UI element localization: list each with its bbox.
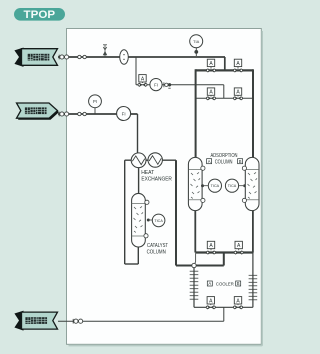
svg-text:COLUMN: COLUMN [147,249,166,255]
svg-text:PI: PI [93,99,97,104]
wire: HX1 to catalyst column top [138,168,140,195]
valve A8 (cooler outlet right) [233,297,242,310]
wire: catalyst bottom U riser [137,246,139,264]
nozzles on catalyst column [144,200,149,238]
wire: HX outlet run to riser [196,265,224,267]
svg-text:TICA: TICA [228,184,237,188]
nozzles on column A [201,166,205,202]
orifice plate (purge line) [164,82,171,88]
valve A3 (equalization left) [206,88,215,101]
svg-text:TIA: TIA [193,39,199,44]
nozzles on column B [242,166,246,202]
banner text 2 (CJK pseudoglyphs) [25,107,47,114]
wire: riser from HX outlet run to bottom header [223,252,225,266]
wire: HX left downcomer [124,160,126,264]
wire: recovered gas drop [223,307,225,321]
label [A] COOLER [B] [207,281,240,288]
panel shadow [69,31,263,346]
valve A2 (top header right) [233,59,242,72]
catalyst column vessel [132,193,146,247]
instrument TICA (column A) [201,179,221,192]
wire: equalization line (row 2) [196,97,253,99]
rotameter (ellipse) on product line [120,50,129,65]
wire: cooler tube B [252,253,254,308]
wire: purified gas product line (top) [58,56,225,58]
wire: header-to-cooler-A jog connector [194,254,196,265]
instrument TIA [190,35,203,56]
svg-text:ADSORPTION: ADSORPTION [211,153,238,159]
heat exchanger circle 2 [148,153,162,167]
wire: top header between columns [196,69,253,71]
wire: heat exchanger shell line [125,159,176,161]
wire: purge line drop to equalization line [223,85,225,99]
banner: purified gas (top left) [15,48,57,66]
adsorption column B (right vessel) [245,157,259,210]
wire: feed line drop to heat exchanger [137,114,139,154]
wire: cooler tube A [193,268,195,308]
wire: HX outlet run to cooler A [176,265,192,267]
cooler tube B fins [249,275,258,300]
instrument FI (feed, on line) [117,107,131,121]
white diagram panel [67,29,262,346]
instrument PI (feed) [89,95,102,114]
svg-text:B: B [237,281,240,286]
wire: left column bottom pipe [194,210,196,253]
relief valve on product line [103,45,107,57]
label CATALYST COLUMN [147,243,169,255]
svg-text:FI: FI [122,111,126,116]
wire: catalyst bottom U horizontal [125,263,139,265]
cooler tube A fins [190,271,199,299]
svg-text:HEAT: HEAT [141,170,155,176]
valve A1 (top header left) [206,59,215,72]
svg-text:FI: FI [154,82,158,87]
adsorption column A (left vessel) [188,157,202,210]
wire: bottom header [195,251,253,253]
label ADSORPTION [A] COLUMN [B] [207,153,243,165]
banner: recovered gas (bottom left) [15,311,57,330]
TPOP title pill [14,8,65,21]
svg-text:A: A [208,281,211,286]
banner text 3 (CJK pseudoglyphs) [25,317,47,324]
wire: right column riser [252,69,254,158]
heat exchanger circle 1 [131,153,146,168]
instrument FI (purge, on line) [150,79,162,91]
banner: feed gas (middle left) [17,103,60,120]
svg-text:COOLER: COOLER [216,282,234,288]
svg-text:EXCHANGER: EXCHANGER [141,177,172,183]
svg-text:TPOP: TPOP [24,9,56,21]
wire: product line drop into top header [224,57,226,70]
valve A4 (equalization right) [233,88,242,101]
coupling flanges on feed line [59,112,86,117]
svg-text:TICA: TICA [211,184,220,188]
svg-text:B: B [239,159,242,164]
instrument TICA (catalyst column) [147,214,165,227]
coupling flanges on recovered gas line [73,319,83,324]
valve A5 (bottom header left) [206,241,215,254]
wire: feed gas line [58,113,138,115]
wire: cooler outlet line [194,306,253,308]
wire: HX outlet downcomer (thick) [175,160,177,265]
wire: recovered gas line to banner [58,320,224,322]
svg-text:COLUMN: COLUMN [215,159,233,165]
valve A7 (cooler outlet left) [206,297,215,310]
cooler tube A inlet nozzle [192,263,196,267]
svg-text:CATALYST: CATALYST [147,243,169,249]
svg-text:A: A [208,159,211,164]
valve A (purge line) [138,75,147,87]
wire: purge/FI line [136,84,224,86]
svg-text:TICA: TICA [154,219,163,223]
valve A6 (bottom header right) [234,241,243,254]
label HEAT EXCHANGER [141,170,172,183]
wire: left column riser [195,69,197,158]
coupling flanges on product line [59,55,86,60]
wire: purge tap drop from product line [135,57,137,85]
instrument TICA (column B) [225,179,246,192]
wire: right column bottom pipe [252,210,254,253]
banner text 1 (CJK pseudoglyphs) [28,54,50,61]
